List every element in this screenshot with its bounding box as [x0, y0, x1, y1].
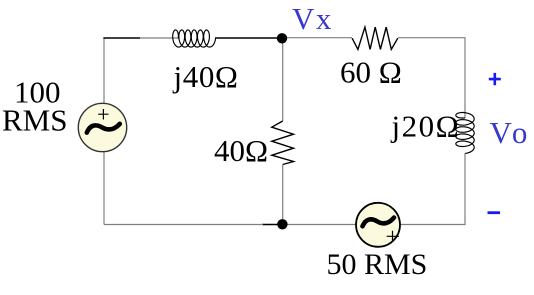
wire: left vertical from top-left corner down to source V1 top — [103, 38, 105, 104]
wire: top horizontal gray segment to inductor L1 left lead — [140, 37, 179, 39]
bottom junction node dot — [277, 219, 287, 229]
svg-text:60 Ω: 60 Ω — [340, 55, 402, 90]
svg-text:j40Ω: j40Ω — [173, 59, 239, 94]
resistor R1 60 ohm zigzag — [352, 27, 398, 49]
voltage source V2 plus polarity mark — [387, 231, 399, 242]
inductor L1 coil (j40 ohm) — [173, 30, 216, 47]
wire: top horizontal black segment from corner toward inductor L1 — [103, 37, 140, 39]
wire: middle vertical from node Vx down to resistor R2 top lead — [282, 38, 284, 121]
voltage source V1 sine tilde — [87, 124, 120, 133]
wire: gray segment from source V2 left side to junction dot — [281, 224, 356, 226]
inductor L2 coil (j20 ohm) — [456, 113, 474, 154]
svg-text:40Ω: 40Ω — [214, 133, 268, 168]
svg-text:j20Ω: j20Ω — [391, 109, 461, 144]
wire: gray segment from resistor R1 right lead to top-right corner and down to inductor L2 — [398, 38, 465, 118]
node Vx junction dot — [277, 33, 287, 43]
voltage source V2 circle (50 RMS) — [356, 203, 400, 247]
svg-text:Vx: Vx — [292, 1, 333, 36]
wire: gray segment from node Vx to resistor R1 left lead — [285, 37, 352, 39]
label: minus polarity of Vo — [488, 211, 501, 214]
voltage source V1 circle (100 RMS) — [78, 103, 126, 151]
svg-text:Vo: Vo — [490, 115, 532, 150]
svg-text:RMS: RMS — [2, 103, 67, 138]
voltage source V1 plus polarity mark — [98, 109, 108, 120]
wire: black segment from inductor L1 right lead to node Vx — [215, 37, 279, 39]
wire: right vertical from inductor L2 bottom to bottom-right corner then left to source V2 — [400, 153, 465, 225]
wire: bottom horizontal gray from bottom-left corner to black stub — [104, 224, 263, 226]
label: plus polarity of Vo — [489, 73, 501, 85]
voltage source V2 sine tilde — [363, 218, 395, 227]
svg-text:50 RMS: 50 RMS — [327, 248, 428, 281]
resistor R2 40 ohm vertical zigzag — [272, 121, 294, 165]
wire: black stub left of bottom junction dot — [262, 224, 279, 226]
wire: middle vertical from resistor R2 bottom lead to bottom junction dot — [282, 165, 284, 225]
wire: left vertical from source V1 bottom to bottom-left corner — [103, 151, 105, 225]
